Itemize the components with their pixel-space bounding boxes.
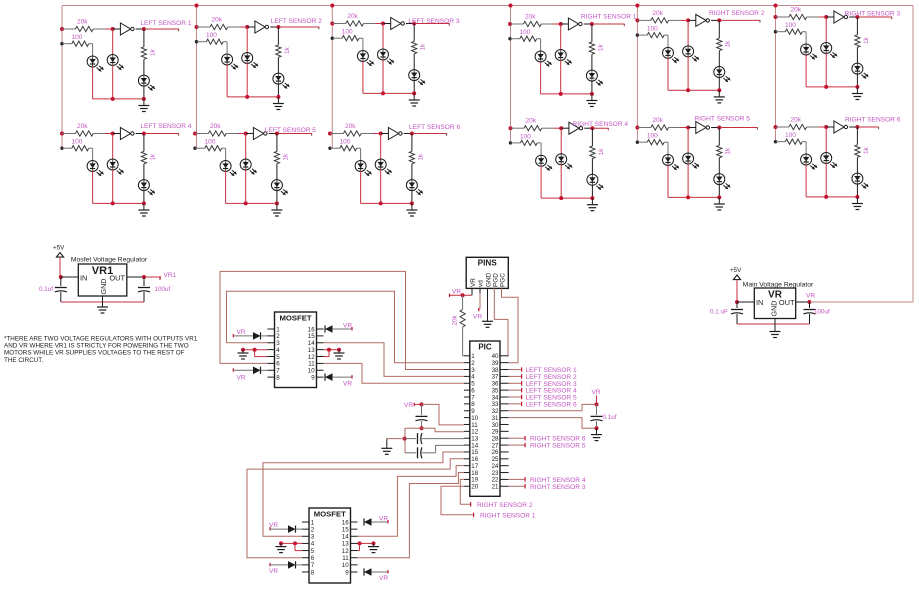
ground (VR1) [102,302,104,307]
ground (osc caps) [386,439,388,448]
diode to VR at MOSFET U1 pin 9 [333,376,353,378]
LED D2 (RIGHT SENSOR 3) [825,43,827,54]
node bottom rail ground junction (LEFT SENSOR 6) [410,201,414,205]
node LEFT SENSOR 4 inverter input junction [111,132,115,136]
node ground junction (U2 pin 4) [279,541,283,545]
node ground junction (U1 pin 4) [241,348,245,352]
wire bottom rail (LEFT SENSOR 1) [93,98,144,100]
resistor 1k (LEFT SENSOR 1) [143,29,145,47]
wire LED3 to bottom rail (LEFT SENSOR 2) [277,84,279,97]
wire 100-resistor to LED1 (RIGHT SENSOR 1) [540,39,542,52]
pin 35 of PIC [500,389,509,391]
svg-text:20k: 20k [791,7,802,14]
wire supply column x=775.5 [775,6,777,142]
svg-text:1k: 1k [863,36,870,44]
pin 4 of MOSFET U2 [302,542,309,544]
node bottom rail LED2 junction (LEFT SENSOR 1) [111,97,115,101]
diode to VR at MOSFET U2 pin 9 [372,571,389,573]
wire 100-resistor to LED1 (RIGHT SENSOR 4) [540,143,542,156]
node RIGHT SENSOR 3 output junction [855,15,859,19]
svg-text:GND: GND [770,301,779,317]
LED D3 (RIGHT SENSOR 4) [591,174,593,185]
wire node to LED2 (LEFT SENSOR 1) [112,29,114,55]
wire U2 pin 12 tie [359,543,361,550]
pin 15 of MOSFET U1 [317,335,324,337]
LED D1 (LEFT SENSOR 5) [225,161,227,172]
svg-text:20: 20 [471,484,478,491]
capacitor 0.1uf (VR1 input) [60,277,62,286]
node bottom rail LED2 junction (LEFT SENSOR 3) [381,91,385,95]
node bottom rail ground junction (RIGHT SENSOR 1) [590,92,594,96]
svg-text:5: 5 [311,548,315,555]
LED D1 (RIGHT SENSOR 3) [805,44,807,55]
svg-text:14: 14 [342,534,349,541]
pin 24 of PIC [500,465,509,467]
wire MOSFET U2 pin 13 ground [358,542,374,544]
svg-text:Mosfet Voltage Regulator: Mosfet Voltage Regulator [71,257,148,264]
resistor 1k (RIGHT SENSOR 1) [591,24,593,42]
pin 40 of PIC [500,355,509,357]
svg-text:GND: GND [99,279,108,295]
wire 100-resistor to LED1 (RIGHT SENSOR 5) [667,142,669,155]
pin 14 of MOSFET U2 [351,535,358,537]
node bottom rail LED2 junction (RIGHT SENSOR 1) [559,92,563,96]
svg-text:20k: 20k [210,123,221,130]
pin 17 of PIC [464,465,470,467]
svg-text:12: 12 [342,548,349,555]
node bottom rail ground junction (RIGHT SENSOR 4) [590,196,594,200]
node bottom rail LED2 junction (LEFT SENSOR 5) [244,201,248,205]
svg-text:MOSFET: MOSFET [279,314,311,323]
resistor 100 (LEFT SENSOR 6) [330,147,340,149]
wire node to LED2 (LEFT SENSOR 2) [246,27,248,53]
pin 13 of MOSFET U1 [317,349,324,351]
svg-text:20k: 20k [212,17,223,24]
node top rail junction x=196.5 [195,4,199,8]
inverter U (RIGHT SENSOR 5) [688,127,696,129]
wire 100-resistor to LED1 (LEFT SENSOR 1) [92,44,94,57]
wire LED2 to bottom rail (RIGHT SENSOR 2) [687,56,689,90]
node RIGHT SENSOR 6 supply junction [774,125,778,129]
pin 6 of PIC [464,389,470,391]
wire LED3 to bottom rail (LEFT SENSOR 3) [413,80,415,93]
diode to VR at MOSFET U1 pin 7 [232,368,234,371]
LED D3 (LEFT SENSOR 2) [277,73,279,84]
wire VR output to right supply bus [810,301,914,303]
wire VR stub to PIC supply node [415,403,422,405]
svg-text:MOSFET: MOSFET [314,510,346,519]
microcontroller PIC box [470,341,500,496]
pin 1 of MOSFET U2 [302,521,309,523]
wire net stub RIGHT SENSOR 4 (PIC pin 22) [509,478,525,480]
resistor 20k (LEFT SENSOR 1) [62,28,75,30]
wire PIC pin 32 to VR node [509,404,597,410]
wire VR OUT [796,301,810,303]
svg-text:100uf: 100uf [155,286,171,293]
svg-text:+5V: +5V [730,267,742,274]
svg-text:7: 7 [311,562,315,569]
capacitor 100uf (VR1 output) [143,277,145,286]
node bottom rail LED2 junction (RIGHT SENSOR 3) [824,85,828,89]
svg-text:16: 16 [342,519,349,526]
wire LED3 to bottom rail (RIGHT SENSOR 4) [591,185,593,198]
wire output net LEFT SENSOR 6 [412,133,447,135]
wire U1 pin 5 tie [254,350,256,357]
driver MOSFET U2 box [309,508,351,583]
wire LED3 to bottom rail (LEFT SENSOR 4) [143,190,145,203]
resistor 100 (RIGHT SENSOR 4) [511,142,521,144]
pin 2 of MOSFET U2 [302,528,309,530]
svg-text:VR: VR [592,389,601,396]
wire U2 pin 5 tie [294,543,296,550]
ground (RIGHT SENSOR 5) [718,197,720,203]
svg-text:VR: VR [379,575,388,582]
wire LED1 to bottom rail (LEFT SENSOR 1) [92,67,94,99]
wire LED2 to bottom rail (LEFT SENSOR 5) [245,170,247,204]
diode to VR at MOSFET U1 pin 2 [232,334,234,337]
svg-text:RIGHT SENSOR 6: RIGHT SENSOR 6 [845,116,901,123]
wire LED2 to bottom rail (LEFT SENSOR 6) [380,170,382,204]
ground (pin32 cap) [596,428,598,434]
svg-text:LEFT SENSOR 2: LEFT SENSOR 2 [271,18,323,25]
node LEFT SENSOR 6 supply junction [328,132,332,136]
svg-text:VR: VR [473,314,482,321]
wire bottom rail (RIGHT SENSOR 4) [541,197,592,199]
resistor 100 (RIGHT SENSOR 3) [776,31,786,33]
ground (U2 pins 4/5) [280,543,282,546]
svg-text:2: 2 [311,526,315,533]
ground (LEFT SENSOR 6) [411,203,413,209]
wire LED1 to bottom rail (LEFT SENSOR 2) [226,65,228,97]
wire LED1 to bottom rail (LEFT SENSOR 5) [225,171,227,203]
svg-text:PIC: PIC [478,343,492,352]
svg-text:RIGHT SENSOR 1: RIGHT SENSOR 1 [480,512,536,519]
node LEFT SENSOR 1 100-resistor junction [60,42,63,45]
svg-text:1k: 1k [149,153,156,161]
pin 8 of MOSFET U1 [268,376,275,378]
wire net stub LEFT SENSOR 1 (PIC pin 38) [509,369,521,371]
svg-text:RIGHT SENSOR 1: RIGHT SENSOR 1 [581,13,637,20]
pin 13 of PIC [464,437,470,439]
wire LED1 to bottom rail (LEFT SENSOR 3) [362,61,364,93]
wire MOSFET U1 pin 13 ground [324,349,340,351]
wire supply column x=510.5 [510,6,512,143]
wire node to LED2 (LEFT SENSOR 5) [245,134,247,160]
resistor 1k (LEFT SENSOR 3) [413,24,415,42]
wire VR1 OUT [127,276,144,278]
node top rail junction x=510.5 [509,4,513,8]
node bottom rail ground junction (RIGHT SENSOR 3) [855,85,859,89]
pin 23 of PIC [500,472,509,474]
node LEFT SENSOR 1 inverter input junction [111,27,115,31]
LED D1 (LEFT SENSOR 2) [226,54,228,65]
LED D3 (RIGHT SENSOR 5) [718,174,720,185]
pin 18 of PIC [464,472,470,474]
wire PIC pin 16 to MOSFET U2 pin 6 [247,459,464,558]
wire bottom rail (LEFT SENSOR 2) [227,96,278,98]
wire bottom rail (RIGHT SENSOR 3) [806,86,857,88]
node LEFT SENSOR 5 100-resistor junction [193,147,196,150]
wire node to LED2 (LEFT SENSOR 4) [112,134,114,160]
wire LED1 to bottom rail (RIGHT SENSOR 1) [540,62,542,94]
svg-text:OUT: OUT [779,298,795,307]
svg-text:8: 8 [311,569,315,576]
ground (PINS) [482,320,493,322]
LED D1 (LEFT SENSOR 1) [92,56,94,67]
pin 29 of PIC [500,430,509,432]
resistor 1k (RIGHT SENSOR 3) [856,17,858,35]
wire 100-resistor to LED1 (RIGHT SENSOR 6) [805,142,807,155]
node bottom rail ground junction (LEFT SENSOR 1) [142,97,146,101]
svg-text:THE CIRCUT.: THE CIRCUT. [4,357,43,364]
node RIGHT SENSOR 6 100-resistor junction [774,140,777,143]
node pin32 supply junction [595,402,599,406]
node RIGHT SENSOR 2 output junction [717,18,721,22]
node VR/20k junction [461,293,465,297]
svg-text:13: 13 [342,541,349,548]
wire VR GND pin [774,319,776,325]
svg-text:VR: VR [343,323,352,330]
LED D3 (RIGHT SENSOR 2) [718,67,720,78]
ground (RIGHT SENSOR 3) [856,87,858,93]
svg-text:MOTORS WHILE VR SUPPLIES VOLTA: MOTORS WHILE VR SUPPLIES VOLTAGES TO THE… [4,350,185,357]
pin 38 of PIC [500,369,509,371]
node decoupling cap bottom junction [420,426,424,430]
wire net stub LEFT SENSOR 5 (PIC pin 34) [509,396,521,398]
pin 3 of MOSFET U1 [268,342,275,344]
wire PIC pin 19 to RIGHT SENSOR 2 [460,479,470,504]
node LEFT SENSOR 3 output junction [412,22,416,26]
svg-text:IN: IN [756,298,763,307]
svg-text:20k: 20k [77,19,88,26]
node RIGHT SENSOR 6 inverter input junction [824,125,828,129]
wire net stub LEFT SENSOR 2 (PIC pin 37) [509,375,521,377]
pin 2 of MOSFET U1 [268,335,275,337]
svg-text:20k: 20k [452,314,459,325]
pin 7 of MOSFET U2 [302,564,309,566]
wire +5V to VR1 input node [59,257,61,277]
svg-text:vd: vd [478,280,485,287]
node RIGHT SENSOR 5 inverter input junction [686,126,690,130]
svg-text:OUT: OUT [109,274,125,283]
wire bottom rail (LEFT SENSOR 5) [226,202,277,204]
pin 31 of PIC [500,417,509,419]
pin 16 of MOSFET U2 [351,521,358,523]
pin 16 of PIC [464,458,470,460]
pin 6 of MOSFET U2 [302,557,309,559]
wire vd stub to VR net [479,293,481,309]
node LEFT SENSOR 2 100-resistor junction [195,40,198,43]
pin 10 of MOSFET U1 [317,369,324,371]
wire cap bottom to osc cap rail [405,428,422,453]
pin 28 of PIC [500,437,509,439]
resistor 1k (RIGHT SENSOR 6) [856,127,858,145]
inverter U (LEFT SENSOR 4) [113,133,121,135]
wire LED3 to bottom rail (RIGHT SENSOR 3) [856,74,858,87]
node LEFT SENSOR 5 inverter input junction [244,132,248,136]
resistor 1k (RIGHT SENSOR 4) [591,128,593,146]
LED D1 (RIGHT SENSOR 1) [540,51,542,62]
svg-text:100uf: 100uf [814,309,830,316]
wire +5V top supply rail [62,5,913,7]
resistor 100 (LEFT SENSOR 3) [332,37,342,39]
wire 20k to PIC pin 1 [463,355,464,357]
node U2 pin4/5 junction [293,541,297,545]
resistor 20k (LEFT SENSOR 4) [62,133,75,135]
resistor 20k (LEFT SENSOR 5) [195,133,208,135]
pin 8 of PIC [464,403,470,405]
LED D2 (LEFT SENSOR 4) [112,159,114,170]
pin 9 of MOSFET U2 [351,571,358,573]
wire 100-resistor to LED1 (LEFT SENSOR 4) [92,148,94,161]
pin 14 of PIC [464,444,470,446]
LED D1 (RIGHT SENSOR 4) [540,155,542,166]
inverter U (RIGHT SENSOR 1) [561,23,569,25]
LED D2 (RIGHT SENSOR 4) [560,154,562,165]
node ground junction (U2 pin 13) [372,541,376,545]
capacitor (osc pin 14) [405,452,416,454]
node RIGHT SENSOR 1 output junction [590,22,594,26]
wire LED2 to bottom rail (RIGHT SENSOR 3) [825,53,827,87]
pin 37 of PIC [500,375,509,377]
resistor 1k (LEFT SENSOR 4) [143,134,145,152]
node bottom rail LED2 junction (LEFT SENSOR 6) [379,201,383,205]
pin 15 of PIC [464,451,470,453]
wire output net RIGHT SENSOR 5 [719,127,757,129]
wire MOSFET U1 pin 4 ground [243,349,268,351]
node RIGHT SENSOR 4 100-resistor junction [509,141,512,144]
node RIGHT SENSOR 6 output junction [855,125,859,129]
wire output net RIGHT SENSOR 6 [857,126,878,128]
wire output net LEFT SENSOR 1 [144,28,179,30]
node LEFT SENSOR 3 supply junction [330,22,334,26]
wire PIC pin 20 to RIGHT SENSOR 1 [441,486,473,515]
svg-text:VR: VR [806,293,815,300]
pin 1 of PIC [464,355,470,357]
ground (LEFT SENSOR 2) [277,97,279,103]
wire supply column x=196.5 [196,6,198,149]
pin 32 of PIC [500,410,509,412]
wire node to LED2 (LEFT SENSOR 3) [382,24,384,50]
node RIGHT SENSOR 1 100-resistor junction [508,37,511,40]
node U1 pin4/5 junction [253,348,257,352]
svg-text:9: 9 [345,569,349,576]
LED D1 (RIGHT SENSOR 5) [667,155,669,166]
node top rail junction x=332.3 [330,4,334,8]
node RIGHT SENSOR 3 inverter input junction [824,15,828,19]
wire node to LED2 (RIGHT SENSOR 6) [825,127,827,153]
node ground junction (U1 pin 13) [337,348,341,352]
LED D3 (LEFT SENSOR 5) [276,180,278,191]
svg-text:VR: VR [269,568,278,575]
svg-text:20k: 20k [77,123,88,130]
node LEFT SENSOR 2 inverter input junction [245,25,249,29]
svg-text:15: 15 [342,526,349,533]
wire PGC to PIC pin 39 [502,288,519,362]
pin 12 of PIC [464,430,470,432]
svg-text:VR: VR [404,402,413,409]
inverter U (RIGHT SENSOR 2) [688,19,696,21]
LED D1 (LEFT SENSOR 3) [362,51,364,62]
wire VR1 GND pin [102,296,104,302]
ground (LEFT SENSOR 4) [143,203,145,209]
wire LED1 to bottom rail (RIGHT SENSOR 6) [805,165,807,197]
LED D1 (LEFT SENSOR 4) [92,161,94,172]
wire LED2 to bottom rail (RIGHT SENSOR 4) [560,164,562,198]
svg-text:LEFT SENSOR 6: LEFT SENSOR 6 [409,124,461,131]
pin 20 of PIC [464,485,470,487]
LED D3 (LEFT SENSOR 1) [143,75,145,86]
node RIGHT SENSOR 2 inverter input junction [686,18,690,22]
wire osc cap to PIC pin 14 [436,445,464,452]
svg-text:6: 6 [311,555,315,562]
pin 5 of PIC [464,382,470,384]
svg-text:1k: 1k [417,153,424,161]
resistor 100 (LEFT SENSOR 2) [197,41,207,43]
wire 100-resistor to LED1 (LEFT SENSOR 2) [226,42,228,55]
inverter U (RIGHT SENSOR 4) [561,127,569,129]
svg-text:VR: VR [269,522,278,529]
wire output net LEFT SENSOR 3 [414,23,449,25]
wire LED3 to bottom rail (RIGHT SENSOR 6) [856,184,858,197]
node RIGHT SENSOR 1 supply junction [508,22,512,26]
svg-text:1k: 1k [597,43,604,51]
LED D1 (RIGHT SENSOR 2) [667,47,669,58]
resistor 20k (RIGHT SENSOR 4) [511,127,524,129]
wire bottom rail (RIGHT SENSOR 2) [668,89,719,91]
wire net stub LEFT SENSOR 6 (PIC pin 33) [509,403,521,405]
wire net stub RIGHT SENSOR 5 (PIC pin 27) [509,444,525,446]
node LEFT SENSOR 1 supply junction [60,27,64,31]
pin 21 of PIC [500,485,509,487]
svg-text:VR: VR [470,278,477,287]
ground (RIGHT SENSOR 2) [718,90,720,96]
node RIGHT SENSOR 3 100-resistor junction [774,30,777,33]
node LEFT SENSOR 2 output junction [276,25,280,29]
LED D2 (LEFT SENSOR 6) [380,159,382,170]
wire LED3 to bottom rail (LEFT SENSOR 5) [276,190,278,203]
svg-text:1: 1 [311,519,315,526]
svg-text:RIGHT SENSOR 5: RIGHT SENSOR 5 [530,443,586,450]
svg-text:0.1uf: 0.1uf [39,286,53,293]
pin 4 of MOSFET U1 [268,349,275,351]
wire node to LED2 (RIGHT SENSOR 2) [687,20,689,46]
LED D1 (LEFT SENSOR 6) [360,161,362,172]
wire bottom rail (RIGHT SENSOR 6) [806,196,857,198]
pin 5 of MOSFET U2 [302,550,309,552]
inverter U (LEFT SENSOR 2) [247,26,255,28]
node LEFT SENSOR 6 inverter input junction [379,132,383,136]
wire MOSFET U1 pin 3 to PIC pin 2 [227,291,464,362]
resistor 100 (LEFT SENSOR 1) [62,43,72,45]
ground (U1 pins 4/5) [242,350,244,353]
ground (RIGHT SENSOR 1) [591,94,593,100]
svg-text:PGC: PGC [499,273,506,287]
node RIGHT SENSOR 2 supply junction [635,18,639,22]
node VR1 input junction [59,275,63,279]
wire LED1 to bottom rail (RIGHT SENSOR 5) [667,165,669,197]
wire PIC pin 15 to MOSFET U2 pin 3 [263,452,464,536]
node PIC supply junction [420,402,424,406]
svg-text:PINS: PINS [478,259,498,268]
LED D2 (RIGHT SENSOR 5) [687,153,689,164]
node LEFT SENSOR 2 supply junction [195,25,199,29]
pin 3 of PIC [464,369,470,371]
wire MOSFET U1 pin 11 to PIC pin 5 [324,363,464,383]
svg-text:1k: 1k [863,146,870,154]
wire cap bottom to PIC pin 12 [422,428,464,432]
node U2 pin12/13 junction [358,541,362,545]
